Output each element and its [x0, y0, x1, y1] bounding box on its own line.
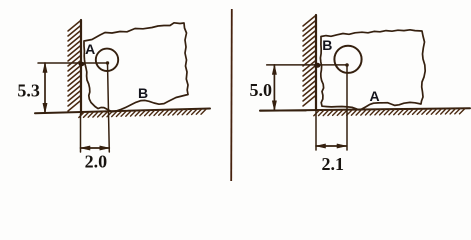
svg-text:B: B: [138, 85, 148, 101]
svg-text:A: A: [369, 88, 379, 104]
svg-text:5.3: 5.3: [17, 81, 40, 101]
svg-text:A: A: [85, 41, 95, 57]
svg-text:2.0: 2.0: [85, 152, 108, 172]
svg-text:5.0: 5.0: [249, 80, 272, 100]
svg-text:B: B: [322, 37, 332, 53]
svg-text:2.1: 2.1: [321, 154, 344, 174]
